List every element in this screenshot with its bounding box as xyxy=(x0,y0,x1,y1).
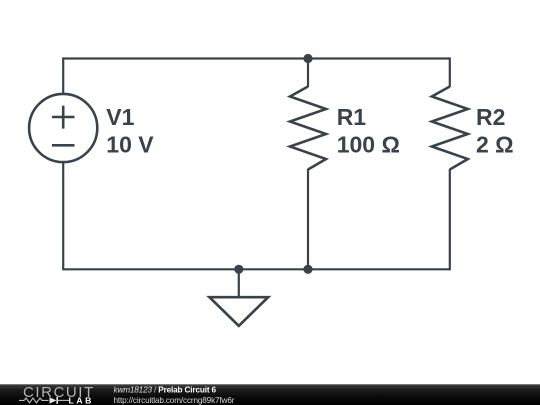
voltage source V1 xyxy=(29,94,97,162)
svg-text:V1: V1 xyxy=(106,104,134,130)
wire R2 bottom stem xyxy=(449,169,451,270)
junction node at ground tap xyxy=(234,265,243,274)
resistor R1 xyxy=(290,87,326,170)
svg-text:10 V: 10 V xyxy=(106,132,154,158)
resistor R2 xyxy=(432,87,468,170)
junction node at R1 bottom xyxy=(303,265,312,274)
wire R2 top stem xyxy=(449,57,451,87)
wire left lower (V1 - terminal to bottom rail) xyxy=(62,163,64,271)
svg-text:http://circuitlab.com/ccrng89k: http://circuitlab.com/ccrng89k7fw6r xyxy=(114,396,235,405)
CircuitLab logo diode xyxy=(50,397,57,403)
CircuitLab logo resistor squiggle xyxy=(19,398,49,403)
wire bottom xyxy=(63,268,450,270)
svg-text:kwm18123 / Prelab Circuit 6: kwm18123 / Prelab Circuit 6 xyxy=(114,386,217,395)
wire top xyxy=(63,57,450,59)
svg-text:LAB: LAB xyxy=(69,395,94,405)
svg-text:2 Ω: 2 Ω xyxy=(476,132,514,158)
wire left upper (top rail to V1 + terminal) xyxy=(62,57,64,93)
svg-text:R1: R1 xyxy=(337,104,367,130)
footer bar xyxy=(0,384,540,405)
wire R1 bottom stem xyxy=(307,169,309,269)
junction node at R1 top xyxy=(303,54,312,63)
ground xyxy=(210,269,269,326)
svg-text:100 Ω: 100 Ω xyxy=(337,132,400,158)
svg-text:R2: R2 xyxy=(476,104,505,130)
wire R1 top stem xyxy=(307,59,309,88)
